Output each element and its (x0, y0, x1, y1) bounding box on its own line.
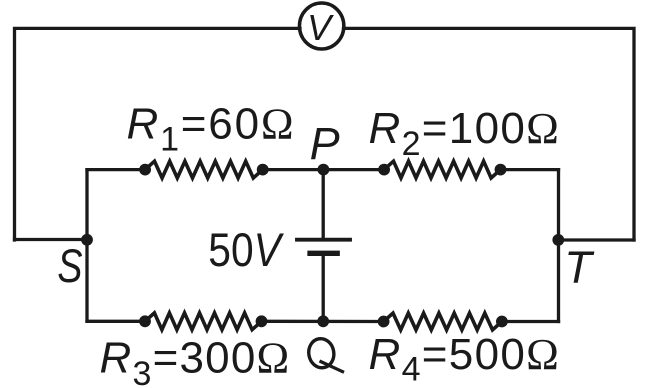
node P junction dot (318, 164, 330, 176)
wire inner rectangle left edge (85, 170, 88, 322)
wire top rail right segment (R2 to T corner) (501, 168, 559, 171)
resistor R3 zigzag (145, 313, 262, 330)
wire battery branch lower (battery to Q) (322, 254, 325, 321)
node S junction dot (81, 234, 93, 246)
wire inner rectangle right edge (557, 170, 560, 322)
wire bottom rail left segment (S corner to R3) (87, 320, 145, 323)
svg-text:R4=500Ω: R4=500Ω (369, 330, 561, 388)
wire outer left horizontal to node S (15, 238, 88, 241)
svg-text:V: V (307, 7, 334, 48)
resistor R4 zigzag (384, 313, 502, 330)
node T junction dot (552, 234, 564, 246)
node Q label (306, 337, 344, 373)
battery B1 short plate (negative) (310, 251, 337, 256)
wire top rail middle segment (R1 to P to R2) (263, 168, 384, 171)
svg-text:T: T (564, 242, 595, 293)
svg-text:R2=100Ω: R2=100Ω (369, 104, 561, 163)
node dot R2 right (495, 164, 507, 176)
battery B1 long plate (positive) (297, 238, 350, 242)
wire battery branch upper (P to battery) (322, 170, 325, 238)
node dot R1 right (257, 164, 269, 176)
svg-text:P: P (310, 118, 340, 169)
wire outer top-left from corner to voltmeter (15, 28, 301, 240)
svg-text:R3=300Ω: R3=300Ω (100, 334, 291, 388)
voltmeter U1 circle (299, 3, 343, 49)
node dot R1 left (139, 164, 151, 176)
node Q junction dot (317, 315, 329, 327)
resistor R2 zigzag (384, 161, 500, 178)
wire bottom rail middle segment (R3 to Q to R4) (262, 320, 384, 324)
node dot R4 left (378, 316, 390, 328)
wire top rail left segment (S corner to R1) (87, 168, 145, 171)
wire bottom rail right segment (R4 to T corner) (502, 320, 559, 323)
node dot R2 left (378, 164, 390, 176)
svg-text:S: S (57, 240, 82, 293)
node dot R3 right (256, 315, 268, 327)
svg-text:R1=60Ω: R1=60Ω (127, 100, 296, 159)
wire outer top-right from voltmeter to corner (344, 28, 635, 240)
node dot R4 right (496, 316, 508, 328)
resistor R1 zigzag (145, 161, 263, 178)
node dot R3 left (139, 315, 151, 327)
wire outer right horizontal from node T (559, 238, 635, 241)
svg-text:50V: 50V (208, 223, 284, 276)
